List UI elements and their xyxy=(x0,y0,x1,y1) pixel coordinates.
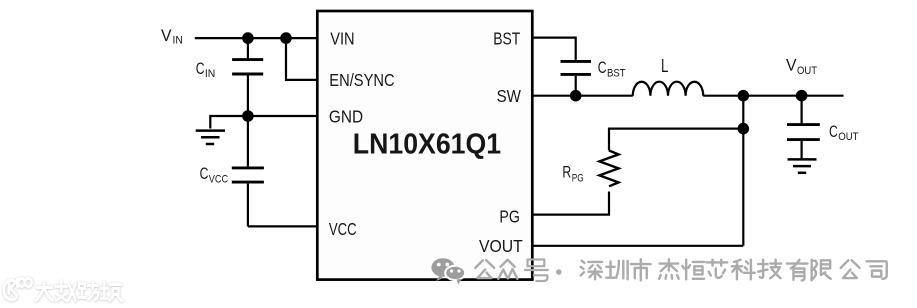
svg-text:PG: PG xyxy=(499,206,520,226)
svg-text:C: C xyxy=(598,59,607,77)
svg-text:VIN: VIN xyxy=(330,28,354,48)
svg-text:SW: SW xyxy=(497,86,522,106)
svg-text:VCC: VCC xyxy=(209,173,228,185)
svg-text:C: C xyxy=(829,123,838,141)
svg-text:V: V xyxy=(786,56,797,74)
svg-text:GND: GND xyxy=(329,106,363,126)
svg-text:PG: PG xyxy=(572,172,584,184)
svg-text:IN: IN xyxy=(205,68,215,80)
svg-text:L: L xyxy=(661,56,668,76)
svg-text:IN: IN xyxy=(173,35,183,47)
svg-text:BST: BST xyxy=(493,28,520,48)
svg-text:LN10X61Q1: LN10X61Q1 xyxy=(353,128,501,160)
svg-text:C: C xyxy=(196,60,205,78)
svg-text:OUT: OUT xyxy=(797,65,817,77)
svg-text:R: R xyxy=(562,164,571,182)
svg-text:C: C xyxy=(200,165,209,183)
svg-text:BST: BST xyxy=(607,67,626,79)
svg-text:V: V xyxy=(161,27,172,45)
svg-text:OUT: OUT xyxy=(838,131,859,143)
svg-text:VCC: VCC xyxy=(329,219,357,239)
svg-text:VOUT: VOUT xyxy=(479,236,523,256)
svg-text:EN/SYNC: EN/SYNC xyxy=(329,70,394,90)
